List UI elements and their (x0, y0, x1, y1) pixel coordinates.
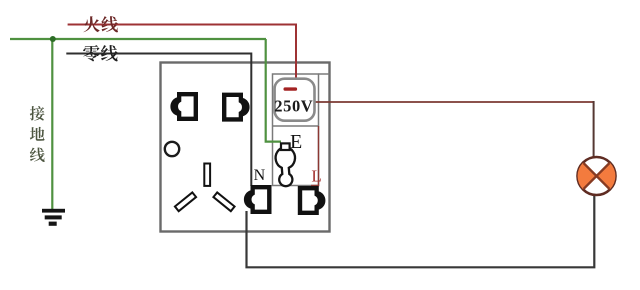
ground symbol (42, 209, 65, 226)
junction dot (50, 36, 56, 42)
module inner rectangle (273, 74, 330, 186)
wire lamp return (247, 194, 595, 267)
label live wire text (84, 16, 118, 32)
socket slot bottom N (244, 185, 272, 214)
svg-text:N: N (254, 167, 266, 184)
socket slot top-left (170, 92, 198, 121)
label neutral wire text (83, 45, 118, 61)
three-pin vertical slot (204, 164, 210, 186)
lamp symbol (578, 157, 616, 195)
svg-text:E: E (290, 131, 302, 153)
three-pin left diagonal slot (175, 192, 196, 211)
wire neutral black (66, 54, 251, 187)
wire ground green left drop (51, 39, 53, 209)
svg-text:L: L (311, 167, 321, 186)
three-pin right diagonal slot (213, 192, 234, 211)
wire lamp feed (312, 101, 594, 103)
socket slot bottom L (298, 186, 326, 215)
wire ground green horizontal (10, 38, 266, 40)
label ground wire text (30, 106, 45, 162)
switch body 250V (275, 79, 315, 121)
socket box outline (161, 63, 330, 232)
terminal E symbol (276, 147, 295, 186)
terminal E top tab (281, 143, 290, 150)
wire live red horizontal (68, 25, 296, 81)
svg-text:250V: 250V (274, 97, 313, 116)
wire ground green to E terminal (266, 39, 281, 142)
socket slot top-right (222, 93, 250, 122)
small circle indicator (165, 142, 179, 156)
module red right edge (311, 126, 319, 186)
switch red bar (284, 87, 298, 90)
